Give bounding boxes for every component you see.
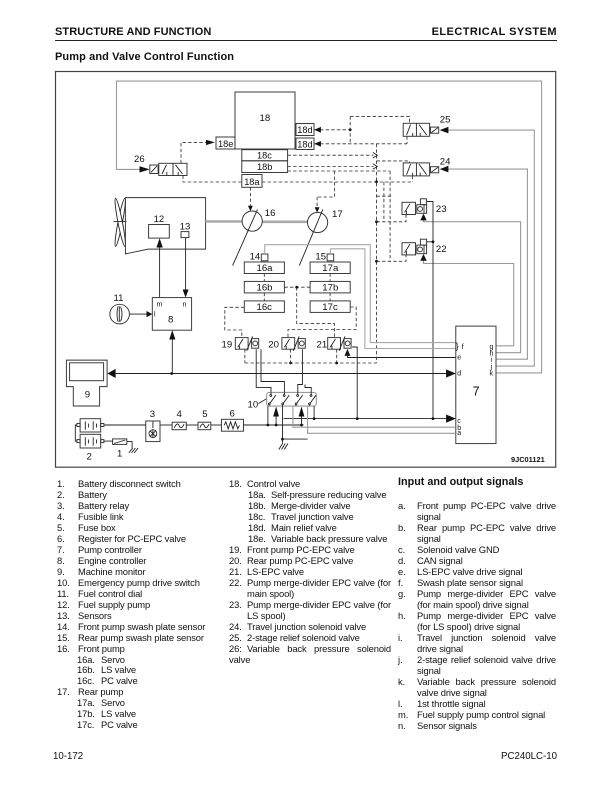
pilot line 16c to PC-EPC valve 19 (225, 307, 245, 337)
register 6 (221, 409, 243, 432)
wire: valve 21 gnd (352, 347, 357, 419)
svg-text:11: 11 (114, 293, 124, 304)
wire: pin j to valve 25 (448, 130, 534, 366)
valve 18e (216, 137, 235, 149)
pilot into pump 16 (249, 187, 251, 206)
wire pin b (293, 406, 456, 427)
svg-text:18d: 18d (297, 125, 312, 135)
svg-text:5: 5 (202, 409, 207, 420)
svg-text:1: 1 (117, 449, 122, 460)
svg-text:13: 13 (180, 222, 191, 233)
PC valve 16c (244, 301, 284, 313)
svg-text:17a: 17a (322, 263, 339, 274)
wire: dial 11 to controller 8 pin l (129, 313, 147, 315)
gnd wire valves 22/23 (427, 202, 433, 419)
svg-text:c: c (457, 418, 461, 425)
svg-text:20: 20 (268, 340, 279, 351)
svg-text:}: } (456, 341, 459, 351)
pilot dashed: valve 22 (377, 255, 407, 261)
svg-text:16c: 16c (257, 302, 273, 313)
header right (432, 26, 557, 38)
wire pin a (308, 406, 456, 433)
switch 10 ground leg (283, 406, 308, 439)
svg-text:a: a (457, 430, 461, 437)
pilot dashed: drain bus lower (245, 362, 377, 364)
emergency pump drive switch 10 (248, 392, 317, 410)
pilot dashed: feed valve 25 top (350, 116, 409, 123)
wire: sensors 13 to engine controller n (185, 238, 187, 290)
wire: valve 21 to pin e (347, 356, 455, 358)
svg-text:25: 25 (440, 115, 451, 126)
svg-text:18a: 18a (244, 177, 260, 187)
fusible link 4 (172, 409, 186, 430)
pilot dashed: feed valve 24 top (377, 161, 410, 163)
svg-text:18e: 18e (218, 139, 233, 149)
svg-text:18b: 18b (257, 162, 272, 172)
LS valve 17b (310, 281, 350, 293)
pilot dashed: 18d upper (315, 129, 351, 131)
svg-text:9JC01121: 9JC01121 (511, 455, 545, 464)
PC-EPC valve 19 (222, 336, 259, 350)
fan (113, 198, 127, 247)
pilot dashed: valve 23 (377, 215, 407, 222)
svg-text:18c: 18c (257, 151, 272, 161)
solenoid valve 25 (403, 115, 450, 137)
svg-text:16: 16 (265, 208, 276, 219)
chevron hops on bus (373, 152, 378, 158)
swash sensor signal line 15 to pin f (330, 249, 455, 349)
svg-text:23: 23 (436, 204, 447, 215)
section title (55, 51, 234, 63)
svg-text:k: k (490, 371, 494, 378)
machine monitor 9 (66, 360, 107, 406)
svg-text:24: 24 (440, 157, 451, 168)
pilot links 17a-17b-17c (329, 274, 331, 282)
pump drive shaft (206, 220, 243, 223)
ground at switch 1 (129, 448, 138, 453)
svg-text:16a: 16a (257, 263, 274, 274)
valve 18c (242, 150, 288, 161)
header left (55, 26, 211, 38)
pilot line valve26 down to drain (183, 176, 242, 183)
wire: controller 8 to CAN line (171, 339, 173, 374)
control valve 18 (235, 92, 295, 149)
solenoid valve 24 (403, 157, 451, 176)
legend column 3 (398, 477, 556, 731)
pilot dashed: from 18b lower (288, 170, 391, 172)
pilot dashed: 18d lower line (315, 143, 408, 145)
svg-text:18: 18 (260, 113, 271, 124)
svg-text:17: 17 (332, 209, 343, 220)
wire: pin h to valve 23 (424, 220, 521, 353)
pilot links 16a-16b-16c (263, 274, 265, 282)
svg-text:m: m (157, 301, 163, 308)
svg-text:22: 22 (436, 244, 447, 255)
svg-text:7: 7 (473, 385, 480, 399)
PC valve 17c (310, 301, 350, 313)
engine controller 8 (152, 298, 191, 331)
svg-text:e: e (457, 355, 461, 362)
wire: pin k loop to valve 26 (117, 81, 542, 373)
svg-text:n: n (183, 301, 187, 308)
fuel control dial 11 (110, 293, 130, 324)
svg-text:l: l (154, 312, 156, 319)
svg-text:17c: 17c (322, 302, 338, 313)
svg-text:d: d (457, 371, 461, 378)
LS valve 16b (244, 281, 284, 293)
svg-text:17b: 17b (322, 283, 338, 294)
valve 18a (242, 175, 262, 188)
svg-text:21: 21 (317, 340, 328, 351)
engine block (125, 198, 205, 254)
pilot dashed: 18d link (349, 116, 351, 143)
servo 16a (244, 262, 284, 274)
pump controller 7 (456, 326, 496, 444)
svg-text:10: 10 (248, 399, 259, 410)
svg-text:12: 12 (154, 214, 165, 225)
LS-EPC valve 21 (317, 336, 352, 356)
svg-text:16b: 16b (257, 283, 273, 294)
svg-text:15: 15 (315, 252, 326, 263)
svg-text:2: 2 (87, 452, 92, 463)
pilot dashed: from 18c (288, 154, 374, 156)
svg-text:4: 4 (177, 409, 183, 420)
valve 18b (242, 161, 288, 173)
svg-text:6: 6 (230, 409, 235, 420)
legend column 1 (57, 479, 227, 731)
svg-text:f: f (462, 344, 464, 351)
valve 18d lower (296, 138, 314, 150)
EPC valve 22 (merge-divider main) (402, 239, 447, 261)
svg-text:26: 26 (134, 154, 145, 165)
battery 2 (75, 419, 104, 463)
solenoid valve 26 (134, 154, 187, 176)
footer left (53, 751, 83, 762)
pilot dashed: drain line from 18a / valve 26 (262, 181, 412, 183)
servo 17a (310, 262, 350, 274)
wires valve 20 to switch 10 (298, 349, 303, 392)
swash sensor signal line 14 to pin f (265, 245, 456, 343)
pilot line valve26 to 18e (181, 142, 206, 163)
pilot into pump 17 (316, 197, 318, 207)
svg-text:8: 8 (168, 315, 173, 326)
fuse box 5 (198, 409, 211, 430)
svg-text:3: 3 (150, 409, 155, 420)
power bus wire (104, 424, 304, 426)
legend column 2 (229, 479, 391, 665)
footer right (501, 751, 557, 762)
svg-text:19: 19 (222, 340, 233, 351)
EPC valve 23 (merge-divider LS) (402, 199, 447, 221)
pilot dashed: main vertical bus (376, 144, 378, 363)
svg-text:i: i (491, 357, 493, 364)
svg-text:9: 9 (85, 389, 90, 400)
pilot dashed: valve 25 drain stub (406, 136, 408, 144)
battery relay 3 (146, 409, 160, 441)
svg-text:18d: 18d (297, 140, 312, 150)
pilot line 17c to PC-EPC valve 20 (288, 307, 356, 338)
PC-EPC valve 20 (268, 336, 305, 350)
wire: pin i to valve 24 (448, 169, 527, 359)
ground below switch 10 (279, 439, 288, 449)
gnd bus to pin c (284, 418, 447, 420)
valve 18d upper (296, 124, 314, 136)
svg-text:14: 14 (250, 252, 261, 263)
wire: pin g to valve 22 (424, 260, 514, 346)
pilot dashed: from 18b upper (288, 166, 374, 168)
wires valve 19 to switch 10 (256, 349, 271, 392)
pilot line 16b-17b to LS-EPC valve 21 (284, 286, 310, 288)
wire: engine controller m to pump 12 (159, 247, 161, 298)
power feed into switch 10 (267, 406, 269, 425)
CAN bus line monitor-controller7 (116, 373, 447, 375)
